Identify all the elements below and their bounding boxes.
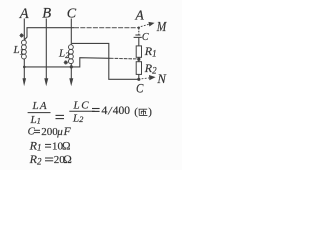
formula fraction bar 2 <box>69 110 94 112</box>
svg-text:LC: LC <box>73 100 90 112</box>
svg-text:): ) <box>148 106 152 118</box>
svg-text:L2: L2 <box>72 113 84 125</box>
wire bottom bus faded segment to junction <box>110 57 137 60</box>
inductor L1 <box>22 40 27 59</box>
wire R1 to R2 <box>138 57 140 61</box>
wire L2 top tap to node C (step down) <box>72 43 138 79</box>
svg-text:A: A <box>135 8 145 23</box>
svg-text:M: M <box>156 19 167 34</box>
node A junction dot <box>138 27 140 29</box>
svg-text:C: C <box>67 6 77 21</box>
svg-text:Ω: Ω <box>63 154 72 166</box>
phase line B <box>45 19 47 80</box>
equals 1 <box>56 115 65 118</box>
junction dot line C bottom bus <box>70 65 73 68</box>
svg-text:4: 4 <box>101 103 107 117</box>
svg-text:L1: L1 <box>30 114 41 126</box>
svg-text:C: C <box>142 32 149 43</box>
phase line C <box>70 19 72 45</box>
junction dot line A bottom bus <box>23 66 26 69</box>
svg-text:μF: μF <box>56 126 71 138</box>
hanzi turns glyph <box>139 109 148 115</box>
polarity mark L2 <box>64 60 68 64</box>
wire capacitor to R1 <box>138 37 140 46</box>
terminal arrow N <box>142 77 150 80</box>
svg-text:LA: LA <box>32 100 47 112</box>
svg-text:N: N <box>156 71 167 86</box>
terminal arrow M <box>141 24 149 26</box>
arrow line A <box>23 78 27 86</box>
junction dot R1-R2 <box>137 58 140 61</box>
arrow line C <box>69 78 73 86</box>
phase line A <box>23 19 25 41</box>
capacitor C lead from node A <box>138 28 140 35</box>
node C junction dot <box>137 78 140 81</box>
resistor R1 <box>136 46 141 57</box>
svg-text:C: C <box>136 81 144 96</box>
inductor L2 <box>69 45 74 64</box>
wire top bus faded segment <box>74 27 139 29</box>
svg-text:400: 400 <box>113 105 131 117</box>
formula fraction bar 1 <box>28 112 51 114</box>
svg-text:A: A <box>19 6 29 22</box>
equals 2 <box>92 109 100 112</box>
resistor R2 <box>136 62 141 75</box>
svg-text:B: B <box>42 5 51 21</box>
svg-text:(: ( <box>134 106 138 118</box>
capacitor C <box>135 34 140 36</box>
svg-text:Ω: Ω <box>62 140 71 152</box>
wire R2 to node C <box>138 74 140 79</box>
wire bottom bus from line A to R1-R2 junction <box>24 58 110 67</box>
svg-text:200: 200 <box>41 126 58 138</box>
arrow line B <box>44 78 48 86</box>
polarity mark L1 <box>20 33 24 37</box>
wire top bus from L1 tap to node A <box>25 28 74 40</box>
